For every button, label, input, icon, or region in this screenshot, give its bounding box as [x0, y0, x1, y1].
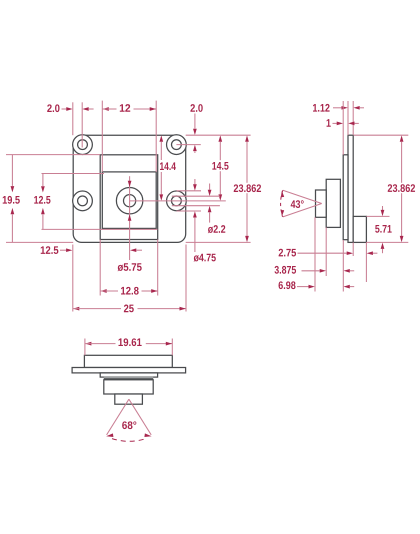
bottom view: housing dark gasket band — [104, 377, 153, 380]
side view: 43 degree arc arrowheads — [281, 191, 284, 217]
bottom view: lens holder — [115, 394, 143, 404]
dimension 43 degrees text — [291, 200, 304, 208]
dimension 2.0 left: text and arrows — [47, 104, 93, 112]
bottom view: 68 degree arrowheads — [106, 433, 151, 437]
dimension 5.71: arrows and text — [375, 206, 391, 253]
bottom view: housing block — [104, 380, 153, 394]
bottom view: 68 degree dashed arc — [112, 439, 146, 442]
dimension 19.5 left: dim line, arrows, text — [3, 155, 20, 243]
dimension 12.5 bottom (edge to lens center): text and arrows — [41, 246, 142, 254]
dimension 1.12 (PCB thickness): extension lines — [348, 101, 353, 135]
front view: mounting hole 2 (o2.2 inner) — [172, 140, 182, 150]
front view: mounting hole boss 3 (o4.75 outer) — [73, 191, 93, 211]
side view: 43 degree dashed arc — [281, 190, 283, 217]
dimension 25 (board width): extension lines — [73, 245, 186, 312]
front view: mounting hole boss 1 (o4.75 outer) — [73, 135, 93, 155]
front view: mounting hole boss 4 (o4.75 outer) — [167, 191, 187, 211]
dimension 23.862 front: dim line, arrows, text — [234, 135, 261, 242]
side view: lens barrel tip profile — [316, 190, 327, 217]
dimension o2.2 (hole diameter): extension lines — [172, 196, 220, 206]
bottom view: 68 degree field-of-view rays — [107, 399, 152, 435]
dimension 12 top (housing top width): extension lines — [102, 101, 156, 172]
front view: camera board plate outline — [73, 135, 186, 242]
dimension 12.5 left: dim line, arrows, text — [34, 174, 50, 230]
front view: hole/lens center row extension line — [130, 200, 226, 202]
dimension 3.875 (holder depth): text, line, arrows — [275, 266, 355, 274]
dimension 23.862 front: top and bottom extension lines — [186, 135, 251, 242]
dimension 19.61 (connector width): extension lines — [85, 339, 172, 356]
front view: lens vertical center line with o5.75 arrows — [128, 176, 132, 260]
front view: lens barrel circle (o5.75) — [116, 188, 142, 214]
front view: mounting hole 1 (o2.2 inner) — [78, 140, 88, 150]
dimension 12.8 (housing width): extension lines — [100, 240, 158, 296]
dimension 14.5 (top edge to hole center): dim line, arrows, text — [212, 135, 228, 200]
bottom view: flex connector block — [84, 355, 172, 367]
dimension 12 top: dim line, arrows, text — [103, 104, 157, 112]
dimension o4.75: arrows, leader, text — [193, 179, 216, 262]
dimension 23.862 side: dim line, arrows, text — [388, 135, 415, 242]
dimension 6.98 (lens total depth): text, line, arrows — [279, 281, 355, 289]
side view: sensor housing profile — [343, 155, 348, 240]
side view: 43 degree field-of-view rays — [283, 190, 322, 217]
dimension o4.75 (boss diameter): extension lines — [177, 191, 202, 211]
dimension 2.0 top-right: text and arrows — [190, 104, 202, 153]
dimension 12.5 left (housing top height): extension lines — [42, 174, 158, 230]
dimension 12.8: dim line, arrows, text — [100, 287, 157, 295]
dimension 14.4 (top edge to lens center): dim line, arrows, text — [159, 135, 175, 200]
front view: mounting hole 4 (o2.2 inner) — [172, 196, 182, 206]
bottom view: housing flange — [100, 373, 157, 377]
bottom view: PCB edge-on — [72, 368, 186, 373]
dimension 25: dim line, arrows, text — [73, 305, 186, 313]
dimension 23.862 side: top and bottom extension lines — [354, 135, 408, 242]
dimension 2.0 top-right (top edge to hole center): extension lines — [176, 144, 200, 146]
side view: lens holder block profile — [326, 179, 340, 227]
dimension o5.75 text — [117, 263, 141, 271]
side view: PCB profile — [348, 135, 353, 242]
dimension 68 degrees text — [122, 421, 136, 429]
front view: mounting hole 3 (o2.2 inner) — [78, 196, 88, 206]
dimension 1.12: text and arrows — [313, 104, 364, 112]
dimension 1: text and arrows — [327, 119, 359, 127]
dimension 19.5 left: extension lines — [6, 155, 100, 243]
dimension 2.0 left (edge to hole center): extension lines — [73, 102, 82, 147]
front view: lens aperture circle — [124, 195, 136, 207]
side view: flex connector profile — [353, 216, 366, 242]
front view: sensor housing outline (12.8 wide rect) — [100, 155, 158, 240]
dimension 2.75 (connector depth): text, line, arrows — [279, 249, 378, 257]
front view: mounting hole boss 2 (o4.75 outer) — [167, 135, 187, 155]
dimension o2.2: arrows, leader, text — [208, 184, 226, 234]
front view: housing top plate (12 wide rect) — [102, 172, 156, 229]
dimension 1 (housing face offset): extension line — [342, 101, 344, 155]
dimension 5.71 (connector height): extension line — [366, 215, 389, 217]
side view bottom: extension lines — [315, 217, 366, 291]
dimension 19.61: dim line, arrows, text — [85, 338, 172, 346]
